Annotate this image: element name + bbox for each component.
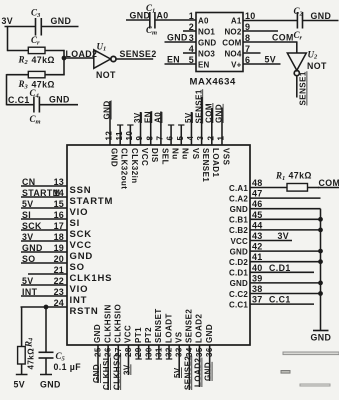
- svg-text:GND: GND: [49, 95, 70, 105]
- svg-text:GND: GND: [204, 362, 213, 381]
- wire 3V rail to C3: [5, 26, 36, 28]
- svg-text:43: 43: [252, 231, 262, 241]
- svg-text:A0: A0: [157, 11, 169, 21]
- pin 26 CLKHSIN (bottom): [102, 304, 113, 390]
- pin 7 SEL (top / A0): [154, 112, 170, 165]
- capacitor C3 (Cr) between 3V and GND: [31, 8, 41, 47]
- svg-text:R4: R4: [24, 337, 35, 348]
- net label A0 (MAX4634 pin1): [157, 11, 169, 21]
- pin 10 A1 of MAX4634 with wire to C2: [231, 11, 297, 26]
- svg-text:INT: INT: [22, 287, 38, 297]
- svg-text:5V: 5V: [22, 199, 34, 209]
- svg-text:C.C1: C.C1: [269, 295, 291, 305]
- svg-text:C5: C5: [56, 351, 66, 363]
- svg-text:22: 22: [54, 276, 64, 286]
- svg-text:21: 21: [54, 265, 64, 275]
- pin 40 C.D1 (right): [229, 263, 314, 278]
- svg-text:STARTM: STARTM: [70, 196, 114, 207]
- svg-text:SEL: SEL: [160, 148, 169, 165]
- svg-text:CN: CN: [22, 177, 36, 187]
- svg-text:COM: COM: [222, 39, 241, 48]
- ground GND (left-mid): [49, 95, 70, 105]
- junction LOAD2 node: [62, 56, 66, 60]
- svg-text:A0: A0: [198, 17, 209, 26]
- power 5V (MAX4634 pin 6): [265, 55, 277, 65]
- svg-text:2: 2: [189, 22, 194, 32]
- svg-text:COM: COM: [319, 178, 339, 188]
- svg-text:NOT: NOT: [96, 70, 116, 80]
- svg-text:PT1: PT1: [134, 327, 143, 343]
- pin 3 GND of MAX4634: [165, 33, 217, 48]
- svg-text:DIS: DIS: [150, 148, 159, 163]
- svg-text:10: 10: [125, 131, 134, 141]
- net label LOAD2: [66, 49, 98, 59]
- pin 4 VS (top / 5V): [184, 112, 200, 160]
- pin 28 VCC (bottom): [122, 325, 133, 375]
- wire R2 to LOAD2 node: [45, 50, 65, 52]
- svg-text:NOT: NOT: [307, 61, 327, 71]
- svg-text:11: 11: [115, 131, 124, 140]
- svg-text:CLKHSI: CLKHSI: [102, 358, 111, 390]
- svg-text:NO4: NO4: [224, 50, 241, 59]
- svg-text:CLKHSIO: CLKHSIO: [114, 304, 123, 343]
- svg-text:48: 48: [252, 178, 262, 188]
- svg-text:C.C2: C.C2: [229, 290, 248, 299]
- svg-text:VCC: VCC: [231, 237, 249, 246]
- svg-text:45: 45: [252, 210, 262, 220]
- svg-text:10: 10: [245, 11, 255, 21]
- svg-text:GND: GND: [230, 205, 248, 214]
- svg-text:GND: GND: [198, 39, 216, 48]
- svg-text:MAX4634: MAX4634: [190, 77, 237, 88]
- svg-text:14: 14: [54, 188, 64, 198]
- svg-text:SCK: SCK: [22, 221, 42, 231]
- pin 22 VIO (left): [21, 276, 88, 295]
- svg-text:3V: 3V: [133, 112, 142, 123]
- svg-text:28: 28: [124, 347, 133, 357]
- svg-text:CLK1HS: CLK1HS: [70, 273, 113, 284]
- pin 9 NO2 of MAX4634: [224, 22, 278, 37]
- pin 35 LOAD2 (bottom): [194, 314, 205, 387]
- svg-text:GND: GND: [51, 16, 72, 26]
- wire 3V down to R2: [8, 26, 29, 51]
- op-amp/inverter U1 NOT gate: [94, 42, 116, 81]
- svg-text:33: 33: [175, 347, 184, 357]
- svg-text:GND: GND: [130, 11, 151, 21]
- svg-text:47: 47: [252, 189, 262, 199]
- pin 45 C.B1 (right): [229, 210, 322, 225]
- pin 18 VCC (left): [21, 232, 92, 251]
- svg-text:3: 3: [189, 33, 194, 43]
- svg-text:C.C1: C.C1: [229, 300, 248, 309]
- svg-text:SO: SO: [70, 262, 85, 273]
- pin 16 SI (left): [21, 210, 80, 229]
- svg-text:SENSE2: SENSE2: [185, 309, 194, 343]
- svg-text:1: 1: [217, 136, 226, 141]
- ground terminal GND (C5 bottom): [40, 380, 61, 390]
- svg-text:5: 5: [176, 136, 185, 141]
- junction RSTN/C5 node: [44, 305, 48, 309]
- svg-text:NO1: NO1: [198, 28, 215, 37]
- pin 1 A0 of MAX4634: [189, 11, 209, 26]
- svg-text:LOADT: LOADT: [164, 313, 173, 343]
- svg-text:5V: 5V: [184, 112, 193, 123]
- svg-text:VS: VS: [174, 331, 183, 343]
- pin 38 C.C2 (right): [229, 284, 322, 299]
- svg-text:VSS: VSS: [221, 148, 230, 166]
- svg-text:CLKHSO: CLKHSO: [112, 354, 121, 390]
- svg-text:46: 46: [252, 199, 262, 209]
- svg-text:V+: V+: [231, 61, 242, 70]
- svg-text:13: 13: [54, 177, 64, 187]
- pin 32 LOADT (bottom): [164, 313, 173, 359]
- pin 37 C.C1 (right): [229, 295, 314, 310]
- pin 8 DIS (top / EN): [143, 111, 159, 163]
- svg-text:VIO: VIO: [70, 284, 89, 295]
- svg-text:GND: GND: [311, 11, 332, 21]
- svg-text:SSN: SSN: [70, 185, 92, 196]
- resistor R3 47k&#937;: [7, 71, 65, 90]
- pin 7 NO4 of MAX4634: [224, 44, 260, 59]
- svg-text:GND: GND: [103, 100, 112, 119]
- svg-text:C3: C3: [31, 8, 41, 20]
- resistor R4 47k&#937; (pull to 5V): [16, 337, 36, 375]
- inverter U2 NOT gate: [287, 50, 327, 76]
- svg-text:6: 6: [245, 55, 250, 65]
- svg-text:CLK32in: CLK32in: [130, 148, 139, 184]
- svg-text:R2: R2: [18, 55, 29, 67]
- pin 43 VCC (right): [231, 231, 293, 246]
- svg-text:U2: U2: [308, 50, 319, 61]
- pin 47 C.A2 (right): [229, 189, 321, 204]
- svg-text:GND: GND: [92, 364, 101, 383]
- resistor R2 47k&#937;: [18, 47, 55, 66]
- wire LOAD2 node vertical (R2-R3 tie): [63, 50, 65, 75]
- pin 15 VIO (left): [21, 199, 88, 218]
- svg-text:24: 24: [54, 298, 64, 308]
- svg-text:7: 7: [156, 136, 165, 141]
- svg-text:SENSE1: SENSE1: [194, 89, 203, 123]
- svg-text:SO: SO: [22, 254, 36, 264]
- svg-text:27: 27: [114, 347, 123, 357]
- svg-text:LOAD1: LOAD1: [211, 148, 220, 177]
- wire right GND bus: [320, 209, 322, 331]
- svg-text:17: 17: [54, 221, 64, 231]
- ground GND (MAX4634 C1 left): [130, 11, 151, 21]
- svg-text:COM: COM: [272, 33, 294, 43]
- svg-text:C.D1: C.D1: [269, 263, 291, 273]
- svg-text:GND: GND: [40, 380, 61, 390]
- svg-text:EN: EN: [198, 61, 210, 70]
- svg-text:CLK32out: CLK32out: [120, 148, 129, 189]
- wire U2 output (SENSE1): [296, 76, 298, 98]
- svg-text:PT2: PT2: [144, 327, 153, 343]
- pin 36 GND (bottom): [204, 324, 215, 381]
- svg-text:GND: GND: [70, 251, 94, 262]
- svg-text:VS: VS: [191, 148, 200, 160]
- wire R3 down to C.C1 net: [7, 74, 35, 105]
- capacitor C4 (Cm) to GND: [30, 88, 41, 126]
- pin 29 PT1 (bottom): [134, 327, 143, 359]
- svg-text:EN: EN: [143, 111, 152, 123]
- svg-text:Cm: Cm: [30, 114, 41, 126]
- wire U1 output to SENSE2: [116, 58, 153, 60]
- pin 44 C.B2 (right): [229, 220, 322, 235]
- pin 5 EN of MAX4634: [165, 55, 210, 70]
- pin 20 SO (left): [21, 254, 85, 273]
- pin 48 C.A1 (right): [229, 171, 339, 193]
- svg-text:A1: A1: [231, 17, 242, 26]
- pin 6 Nu (top): [166, 125, 180, 160]
- svg-text:SENSET: SENSET: [154, 308, 163, 343]
- svg-text:44: 44: [252, 220, 262, 230]
- svg-text:37: 37: [252, 295, 262, 305]
- svg-text:C.D2: C.D2: [229, 258, 248, 267]
- svg-text:RSTN: RSTN: [70, 306, 99, 317]
- pin 24 RSTN (left): [21, 298, 99, 317]
- svg-text:1: 1: [189, 11, 194, 21]
- pin 33 VS (bottom): [173, 331, 184, 378]
- wire C4 to GND: [40, 104, 78, 106]
- svg-text:5V: 5V: [265, 55, 277, 65]
- pin 25 GND (bottom): [92, 324, 103, 383]
- pin 2 NO1 of MAX4634: [183, 22, 215, 37]
- svg-text:42: 42: [252, 242, 262, 252]
- pin 19 GND (left): [21, 243, 93, 262]
- svg-text:SI: SI: [70, 218, 81, 229]
- svg-text:5: 5: [189, 55, 194, 65]
- svg-text:3V: 3V: [122, 364, 131, 375]
- svg-text:32: 32: [165, 347, 174, 357]
- svg-text:39: 39: [252, 273, 262, 283]
- svg-text:C.D1: C.D1: [229, 269, 248, 278]
- ground GND (top-left): [51, 16, 72, 26]
- svg-text:SCK: SCK: [70, 229, 92, 240]
- svg-text:A0: A0: [154, 112, 163, 123]
- svg-text:12: 12: [105, 131, 114, 141]
- svg-text:36: 36: [205, 347, 214, 357]
- net label COM (pin 8): [272, 33, 294, 43]
- svg-text:NO2: NO2: [224, 28, 241, 37]
- svg-text:R1: R1: [275, 171, 285, 183]
- svg-text:5V: 5V: [22, 276, 34, 286]
- svg-text:GND: GND: [230, 247, 248, 256]
- svg-text:CLKHSIN: CLKHSIN: [103, 304, 112, 343]
- svg-text:25: 25: [94, 347, 103, 357]
- svg-text:VIO: VIO: [70, 207, 89, 218]
- svg-text:6: 6: [166, 136, 175, 141]
- net label SENSE1 (U2 output): [299, 71, 308, 105]
- svg-text:C.A1: C.A1: [229, 184, 248, 193]
- svg-text:C4: C4: [30, 88, 40, 100]
- svg-text:26: 26: [104, 347, 113, 357]
- svg-text:SI: SI: [22, 210, 31, 220]
- wire C3 to GND: [42, 26, 79, 28]
- pin 1 VSS (top / GND): [215, 104, 231, 166]
- svg-text:20: 20: [54, 254, 64, 264]
- svg-text:C.C1: C.C1: [8, 95, 30, 105]
- svg-text:18: 18: [54, 232, 64, 242]
- capacitor C1 (Cm) on MAX4634 pin1 A0: [126, 3, 196, 37]
- pin 42 GND (right): [230, 242, 323, 257]
- svg-text:23: 23: [54, 287, 64, 297]
- svg-text:31: 31: [154, 347, 163, 357]
- svg-text:5V: 5V: [173, 367, 182, 378]
- capacitor C2 (Cr) on MAX4634 pin10: [294, 6, 339, 42]
- svg-text:29: 29: [134, 347, 143, 357]
- svg-text:SENSE2: SENSE2: [183, 356, 192, 390]
- pin 13 SSN (left): [21, 177, 91, 196]
- pin 14 STARTM (left): [21, 188, 113, 207]
- capacitor C5 0.1uF on RSTN: [39, 307, 82, 375]
- power terminal 5V (R4 bottom): [14, 380, 26, 390]
- pin 2 LOAD1 (top / COM): [205, 103, 221, 177]
- svg-text:16: 16: [54, 210, 64, 220]
- wire node to U1 input: [64, 57, 94, 59]
- ground GND (top-right): [311, 11, 332, 21]
- svg-text:15: 15: [54, 199, 64, 209]
- pin 8 COM of MAX4634 wire to U2: [222, 33, 297, 54]
- svg-text:C.A2: C.A2: [229, 194, 248, 203]
- ground terminal GND (right bus): [311, 331, 332, 343]
- pin 5 Nu (top): [176, 125, 190, 160]
- pin 9 VCC (top / 3V): [133, 112, 149, 166]
- svg-text:38: 38: [252, 284, 262, 294]
- pin 41 C.D2 (right): [229, 252, 322, 267]
- svg-text:U1: U1: [97, 42, 107, 53]
- svg-text:Cr: Cr: [294, 30, 303, 42]
- pin 23 INT (left): [21, 287, 87, 306]
- pin 21 CLK1HS (left): [28, 265, 112, 284]
- analog switch U? MAX4634 body: [190, 13, 244, 88]
- svg-text:VCC: VCC: [124, 325, 133, 343]
- net label SENSE2 (U1 output): [120, 49, 157, 59]
- svg-text:9: 9: [245, 22, 250, 32]
- svg-text:VCC: VCC: [140, 148, 149, 166]
- svg-text:GND: GND: [22, 243, 43, 253]
- pin 46 GND (right): [230, 199, 321, 214]
- svg-text:GND: GND: [167, 33, 188, 43]
- pin 6 V+ of MAX4634: [231, 55, 280, 70]
- svg-text:47kΩ: 47kΩ: [289, 171, 312, 181]
- pin 11 CLK32out (top): [115, 125, 129, 189]
- svg-text:8: 8: [245, 33, 250, 43]
- svg-text:C2: C2: [294, 6, 304, 18]
- svg-text:INT: INT: [70, 295, 88, 306]
- pin 10 CLK32in (top): [125, 125, 139, 184]
- pin 17 SCK (left): [21, 221, 92, 240]
- svg-text:Nu: Nu: [170, 148, 179, 160]
- svg-text:GND: GND: [215, 104, 224, 123]
- svg-text:COM: COM: [205, 103, 214, 123]
- svg-text:7: 7: [245, 44, 250, 54]
- svg-text:GND: GND: [109, 148, 118, 167]
- svg-text:Nu: Nu: [181, 148, 190, 160]
- pin 34 SENSE2 (bottom): [183, 309, 194, 390]
- svg-text:R3: R3: [18, 79, 29, 91]
- svg-text:4: 4: [189, 44, 194, 54]
- wire RSTN to R4/C5: [21, 307, 23, 347]
- svg-text:35: 35: [195, 347, 204, 357]
- pin 12 GND (top / GND): [103, 100, 119, 167]
- svg-text:8: 8: [145, 136, 154, 141]
- svg-text:47kΩ: 47kΩ: [32, 55, 55, 65]
- svg-text:34: 34: [185, 347, 194, 357]
- svg-text:41: 41: [252, 252, 262, 262]
- svg-text:LOAD2: LOAD2: [66, 49, 98, 59]
- pin 39 GND (right): [230, 273, 323, 288]
- main IC U3 body: [67, 145, 250, 345]
- net label C.C1 (bottom-left): [8, 95, 30, 105]
- pin 30 PT2 (bottom): [144, 327, 153, 359]
- svg-text:NO3: NO3: [198, 50, 215, 59]
- pin 27 CLKHSIO (bottom): [112, 304, 123, 390]
- svg-text:SENSE2: SENSE2: [120, 49, 157, 59]
- svg-text:2: 2: [206, 136, 215, 141]
- svg-text:SENSE1: SENSE1: [201, 148, 210, 182]
- svg-text:5V: 5V: [14, 380, 26, 390]
- svg-text:3V: 3V: [22, 232, 34, 242]
- svg-text:0.1 µF: 0.1 µF: [54, 362, 82, 372]
- svg-text:LOAD2: LOAD2: [194, 358, 203, 387]
- svg-text:EN: EN: [167, 55, 180, 65]
- svg-text:3V: 3V: [2, 16, 14, 26]
- svg-text:3: 3: [196, 136, 205, 141]
- svg-text:VCC: VCC: [70, 240, 92, 251]
- svg-text:40: 40: [252, 263, 262, 273]
- svg-text:9: 9: [135, 136, 144, 141]
- svg-text:3V: 3V: [278, 231, 290, 241]
- svg-text:GND: GND: [230, 279, 248, 288]
- svg-text:C.B2: C.B2: [229, 226, 248, 235]
- pin 4 NO3 of MAX4634: [183, 44, 215, 59]
- pin 31 SENSET (bottom): [154, 308, 163, 359]
- svg-text:4: 4: [186, 136, 195, 141]
- node 3V (top-left supply label): [2, 16, 14, 26]
- svg-text:30: 30: [144, 347, 153, 357]
- svg-text:SENSE1: SENSE1: [299, 71, 308, 105]
- svg-text:GND: GND: [311, 333, 332, 343]
- pin 3 SENSE1 (top / SENSE1): [194, 89, 210, 182]
- svg-text:GND: GND: [93, 324, 102, 343]
- svg-text:GND: GND: [205, 324, 214, 343]
- svg-text:19: 19: [54, 243, 64, 253]
- svg-text:LOAD2: LOAD2: [195, 314, 204, 343]
- svg-text:Cr: Cr: [31, 35, 40, 47]
- svg-text:C.B1: C.B1: [229, 216, 248, 225]
- svg-text:47kΩ: 47kΩ: [27, 348, 36, 370]
